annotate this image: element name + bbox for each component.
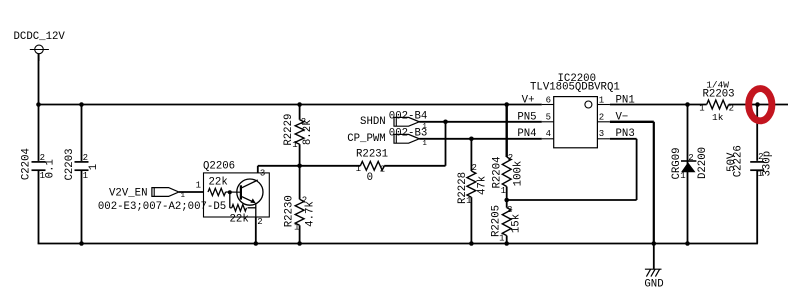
svg-text:1: 1 [499,234,504,244]
svg-text:2: 2 [302,196,307,206]
svg-text:SHDN: SHDN [360,116,386,128]
svg-text:R2231: R2231 [356,148,388,160]
svg-text:1: 1 [599,95,604,105]
svg-text:PN3: PN3 [616,128,635,140]
svg-text:PN1: PN1 [616,95,635,107]
svg-text:2: 2 [301,117,306,127]
svg-text:1: 1 [356,164,361,174]
svg-text:C2204: C2204 [20,148,32,180]
svg-text:2: 2 [380,164,385,174]
svg-text:002-E3;007-A2;007-D5: 002-E3;007-A2;007-D5 [98,201,226,213]
svg-text:1: 1 [88,164,100,170]
svg-text:Q2206: Q2206 [203,161,235,173]
svg-text:V−: V− [616,111,629,123]
svg-text:1k: 1k [712,112,724,123]
svg-text:2: 2 [599,112,604,122]
svg-text:2: 2 [257,217,262,227]
svg-text:1: 1 [83,171,88,181]
svg-text:100k: 100k [512,161,524,187]
svg-text:R2204: R2204 [492,156,504,188]
svg-text:1: 1 [180,192,185,200]
svg-text:2: 2 [471,163,476,173]
svg-text:R2203: R2203 [703,88,735,100]
svg-text:5: 5 [546,112,551,122]
svg-text:1: 1 [680,171,685,181]
svg-text:002-B4: 002-B4 [389,110,427,122]
svg-text:2: 2 [508,153,513,163]
svg-text:1: 1 [501,186,506,196]
svg-text:1: 1 [758,169,763,179]
svg-text:3: 3 [599,129,604,139]
svg-text:D2200: D2200 [697,147,709,179]
svg-text:CP_PWM: CP_PWM [347,133,385,145]
svg-text:22k: 22k [230,214,249,226]
svg-text:2: 2 [688,153,693,163]
svg-text:TLV1805QDBVRQ1: TLV1805QDBVRQ1 [530,82,620,94]
svg-text:C2203: C2203 [64,148,76,180]
svg-text:4: 4 [546,129,551,139]
svg-text:1: 1 [466,196,471,206]
svg-text:2: 2 [758,152,763,162]
svg-text:0: 0 [367,172,373,184]
svg-text:15k: 15k [511,214,523,233]
svg-text:2: 2 [83,153,88,163]
svg-text:2: 2 [729,104,734,114]
svg-text:0.1: 0.1 [44,159,56,178]
svg-text:R2205: R2205 [491,205,503,237]
svg-text:PN4: PN4 [517,128,536,140]
svg-text:GND: GND [644,279,663,291]
svg-text:47k: 47k [477,176,489,195]
svg-text:C2226: C2226 [733,145,745,177]
svg-text:1: 1 [422,123,427,131]
svg-text:1: 1 [40,171,45,181]
svg-text:V2V_EN: V2V_EN [109,187,147,199]
svg-text:6: 6 [546,95,551,105]
svg-text:1: 1 [292,140,297,150]
svg-text:2: 2 [40,153,45,163]
svg-text:1: 1 [294,222,299,232]
svg-text:PN5: PN5 [517,111,536,123]
svg-text:1: 1 [422,140,427,148]
svg-text:22k: 22k [209,177,228,189]
svg-text:2: 2 [507,205,512,215]
svg-text:3: 3 [260,168,265,178]
svg-text:1: 1 [699,104,704,114]
svg-text:DCDC_12V: DCDC_12V [14,31,66,43]
svg-text:1: 1 [196,180,201,190]
svg-text:V+: V+ [522,95,535,107]
